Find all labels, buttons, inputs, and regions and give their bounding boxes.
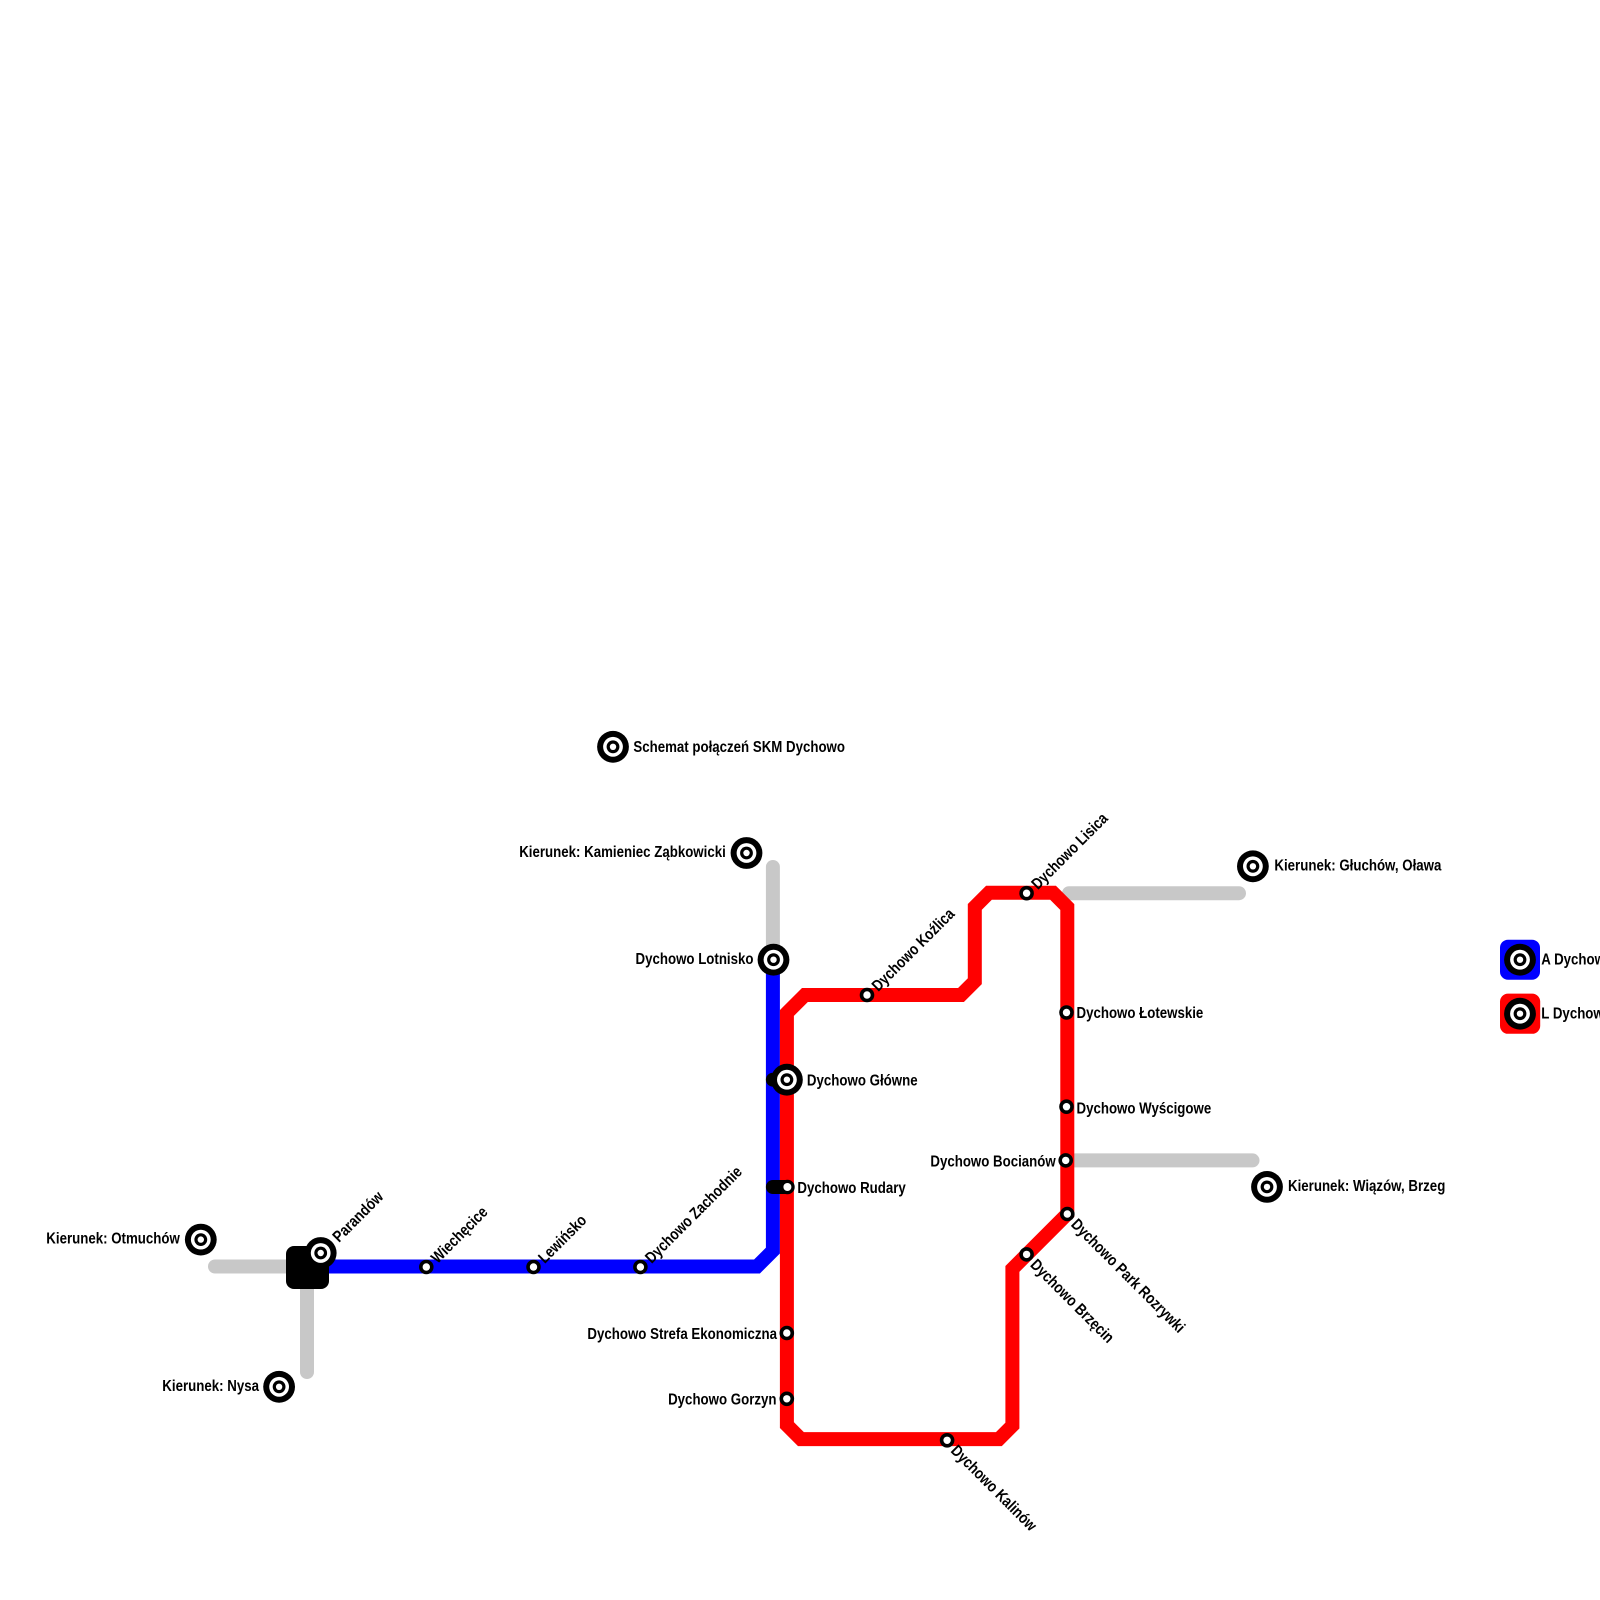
svg-text:Kierunek: Otmuchów: Kierunek: Otmuchów (46, 1231, 180, 1248)
svg-text:A Dychowo Lotnisko: A Dychowo Lotnisko (1541, 951, 1600, 968)
svg-text:L Dychowo Okrężna: L Dychowo Okrężna (1541, 1005, 1600, 1022)
svg-text:Dychowo Strefa Ekonomiczna: Dychowo Strefa Ekonomiczna (587, 1326, 777, 1343)
svg-text:Kierunek: Kamieniec Ząbkowicki: Kierunek: Kamieniec Ząbkowicki (519, 844, 726, 861)
svg-text:Dychowo Łotewskie: Dychowo Łotewskie (1077, 1005, 1204, 1022)
svg-text:Kierunek: Głuchów, Oława: Kierunek: Głuchów, Oława (1274, 858, 1441, 875)
svg-text:Dychowo Rudary: Dychowo Rudary (797, 1180, 905, 1197)
svg-text:Dychowo Lotnisko: Dychowo Lotnisko (636, 951, 754, 968)
svg-text:Dychowo Gorzyn: Dychowo Gorzyn (668, 1392, 776, 1409)
svg-text:Schemat połączeń SKM Dychowo: Schemat połączeń SKM Dychowo (633, 739, 845, 756)
svg-text:Kierunek: Wiązów, Brzeg: Kierunek: Wiązów, Brzeg (1288, 1178, 1445, 1195)
svg-text:Kierunek: Nysa: Kierunek: Nysa (162, 1378, 259, 1395)
svg-text:Dychowo Bocianów: Dychowo Bocianów (930, 1153, 1056, 1170)
svg-text:Dychowo Główne: Dychowo Główne (807, 1073, 918, 1090)
svg-text:Dychowo Wyścigowe: Dychowo Wyścigowe (1077, 1101, 1212, 1118)
